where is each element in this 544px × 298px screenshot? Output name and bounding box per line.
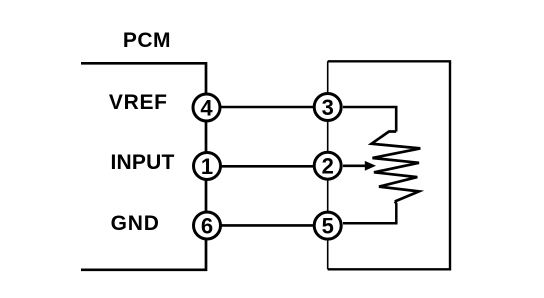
wire VREF: pin 4 to pin 3 xyxy=(206,106,328,109)
sensor housing rectangle (top, right, bottom edges) xyxy=(328,61,450,269)
pin circle 2 xyxy=(314,152,341,179)
svg-text:PCM: PCM xyxy=(123,29,171,52)
svg-text:INPUT: INPUT xyxy=(111,151,175,174)
svg-text:3: 3 xyxy=(322,95,334,120)
PCM connector outline (top edge, right vertical, bottom edge) xyxy=(81,63,206,269)
pin circle 3 xyxy=(314,94,341,121)
svg-text:GND: GND xyxy=(111,212,160,235)
svg-text:6: 6 xyxy=(201,214,213,239)
pin circle 6 xyxy=(194,212,221,239)
wiper arrow shaft from pin 2 xyxy=(343,165,366,168)
resistor R (zigzag) xyxy=(372,132,421,202)
svg-text:2: 2 xyxy=(322,154,334,179)
wire INPUT: pin 1 to pin 2 xyxy=(206,165,328,168)
svg-text:VREF: VREF xyxy=(109,91,168,114)
pin circle 1 xyxy=(194,153,221,180)
wire GND: pin 6 to pin 5 xyxy=(206,224,328,227)
wire resistor bottom to pin 5 xyxy=(343,202,396,224)
pin circle 4 xyxy=(193,94,220,121)
svg-text:4: 4 xyxy=(200,96,213,121)
wiper arrow head xyxy=(365,161,376,171)
sensor housing left edge xyxy=(327,61,329,269)
pin circle 5 xyxy=(314,212,341,239)
svg-text:1: 1 xyxy=(201,154,213,179)
wire pin 3 to resistor top xyxy=(343,107,396,132)
svg-text:5: 5 xyxy=(322,214,334,239)
